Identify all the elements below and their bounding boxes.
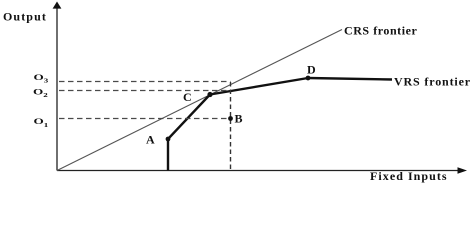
- CRS frontier line: [57, 30, 342, 171]
- dashed line O2: [59, 90, 231, 92]
- x-axis: [57, 170, 459, 172]
- svg-text:VRS frontier: VRS frontier: [394, 75, 471, 89]
- svg-text:Output: Output: [3, 10, 47, 24]
- y-axis arrowhead: [53, 2, 62, 9]
- point B: [228, 116, 233, 121]
- svg-text:CRS frontier: CRS frontier: [344, 24, 417, 38]
- y-axis: [56, 7, 58, 171]
- dashed line O3: [59, 81, 231, 83]
- svg-text:A: A: [146, 133, 155, 147]
- svg-text:Fixed Inputs: Fixed Inputs: [370, 169, 448, 183]
- dashed line O1: [59, 118, 227, 120]
- svg-text:B: B: [235, 112, 243, 126]
- dashed vertical line at B input level: [230, 82, 232, 170]
- VRS frontier polyline: [168, 78, 392, 171]
- point A: [166, 137, 171, 142]
- svg-text:C: C: [183, 90, 192, 104]
- svg-text:D: D: [307, 63, 316, 77]
- point D: [306, 76, 311, 81]
- point C: [207, 92, 212, 97]
- x-axis arrowhead: [458, 167, 468, 174]
